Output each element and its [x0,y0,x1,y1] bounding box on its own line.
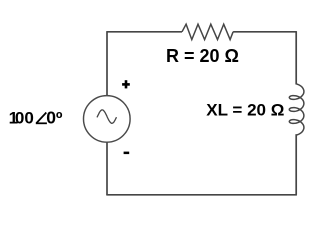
wire: top-right horizontal segment [233,31,296,33]
AC source V1 circle [84,96,131,143]
wire: left vertical lower segment [106,142,108,195]
resistor R1 zigzag [182,24,233,39]
wire: right vertical lower segment [295,134,297,195]
label: source value 100 [9,109,34,128]
label: source polarity plus sign [122,80,130,88]
wire: top-left horizontal segment [107,31,182,33]
label: angle symbol [36,113,47,124]
svg-text:XL = 20 Ω: XL = 20 Ω [206,100,284,119]
label: source polarity minus sign [124,152,130,155]
svg-text:0: 0 [46,108,56,128]
inductor L1 coil [289,84,304,135]
svg-text:R = 20 Ω: R = 20 Ω [166,46,239,66]
svg-text:00: 00 [15,109,34,128]
AC source sine symbol [97,110,117,123]
wire: bottom horizontal segment [106,194,297,196]
svg-text:º: º [56,109,63,129]
wire: left vertical upper segment [106,31,108,96]
wire: right vertical upper segment [295,31,297,84]
